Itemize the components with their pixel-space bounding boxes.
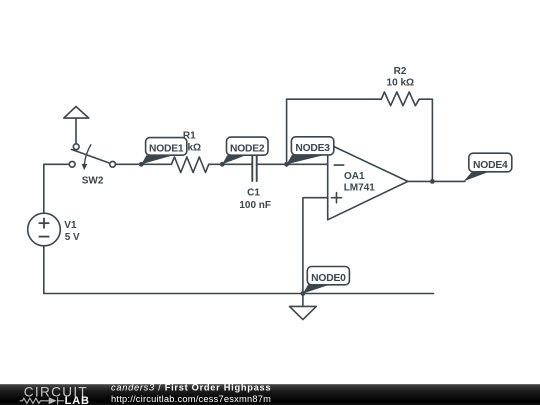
wire: R1 to C1 (209, 163, 253, 165)
junction dot output (430, 179, 435, 184)
wire: feedback top to R2 (287, 98, 382, 100)
switch SW2 actuation arc (84, 145, 91, 165)
wire: op-amp non-inverting input to ground rail (303, 198, 328, 294)
svg-text:NODE1: NODE1 (149, 144, 184, 155)
wire: V1 minus down to ground rail (44, 246, 434, 294)
svg-text:NODE4: NODE4 (473, 160, 508, 171)
svg-text:C1: C1 (247, 188, 260, 199)
junction dot NODE1 (139, 162, 144, 167)
node flag NODE2 (222, 137, 268, 164)
svg-text:5 V: 5 V (65, 232, 80, 243)
svg-text:http://circuitlab.com/cess7esx: http://circuitlab.com/cess7esxmn87m (111, 394, 271, 404)
capacitor C1 right plate (256, 150, 258, 181)
op-amp OA1 plus sign (331, 193, 341, 203)
svg-text:SW2: SW2 (82, 175, 104, 186)
node flag NODE4 (464, 153, 512, 181)
switch SW2 arc arrowhead (82, 164, 88, 171)
resistor R2 body (381, 92, 419, 106)
svg-text:OA1: OA1 (344, 171, 365, 182)
junction dot NODE2 (220, 162, 225, 167)
svg-text:LM741: LM741 (344, 183, 376, 194)
terminal flag (up triangle) (64, 107, 89, 119)
wire: C1 to op-amp inverting input (257, 163, 328, 165)
wire: op-amp output to NODE4 (408, 180, 465, 182)
junction dot NODE3 (284, 162, 289, 167)
switch SW2 left terminal (69, 161, 75, 167)
wire: SW2 left terminal to V1 plus (44, 164, 70, 213)
switch SW2 lever (71, 149, 109, 163)
op-amp OA1 triangle (328, 144, 408, 220)
svg-text:NODE3: NODE3 (295, 143, 330, 154)
svg-text:R2: R2 (394, 66, 407, 77)
op-amp OA1 minus sign (334, 164, 343, 166)
svg-text:100 nF: 100 nF (239, 200, 271, 211)
voltage source V1 body (28, 213, 61, 246)
voltage source V1 plus/minus marks (39, 218, 50, 237)
svg-text:canders3 / First Order Highpas: canders3 / First Order Highpass (111, 383, 271, 393)
node flag NODE1 (141, 138, 187, 165)
switch SW2 top terminal (73, 144, 79, 150)
node flag NODE3 (287, 137, 334, 165)
footer bar (0, 384, 540, 405)
wire: R2 to output junction (419, 99, 432, 181)
svg-text:V1: V1 (64, 220, 77, 231)
svg-text:10 kΩ: 10 kΩ (387, 77, 414, 88)
svg-text:NODE0: NODE0 (311, 273, 346, 284)
wire: flag stem to SW2 top terminal (75, 118, 77, 144)
svg-text:LAB: LAB (65, 395, 90, 405)
svg-text:NODE2: NODE2 (230, 143, 265, 154)
junction dot NODE0 (301, 291, 306, 296)
wire: SW2 right terminal to R1 (116, 163, 172, 165)
wire: feedback left vertical (NODE3 up) (286, 99, 288, 164)
capacitor C1 left plate (251, 150, 253, 181)
ground symbol triangle (290, 306, 317, 319)
resistor R1 body (171, 157, 208, 173)
ground symbol stem (302, 294, 304, 307)
CircuitLab logo resistor-diode glyph (20, 397, 64, 404)
node flag NODE0 (303, 267, 350, 294)
switch SW2 right terminal (110, 161, 116, 167)
